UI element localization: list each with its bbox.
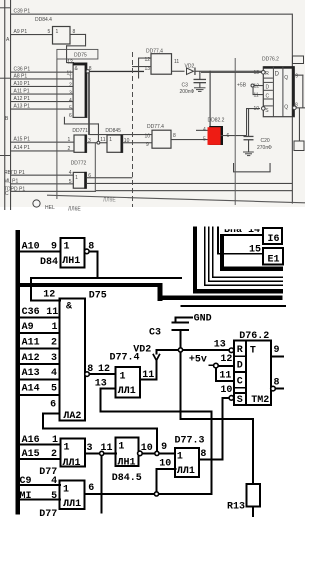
svg-text:D84.5: D84.5	[112, 473, 142, 484]
svg-text:DD845: DD845	[105, 128, 121, 134]
svg-text:3: 3	[69, 90, 72, 96]
svg-text:12: 12	[220, 354, 232, 365]
svg-text:ЛЛ1: ЛЛ1	[63, 458, 81, 469]
svg-text:11: 11	[219, 370, 231, 381]
svg-text:2: 2	[69, 83, 72, 89]
svg-text:C36: C36	[22, 307, 40, 318]
svg-text:C9: C9	[20, 476, 32, 487]
svg-text:A10: A10	[22, 242, 40, 253]
svg-text:ЛА2: ЛА2	[63, 411, 81, 422]
svg-text:C3: C3	[149, 328, 161, 339]
svg-text:A16: A16	[22, 435, 40, 446]
svg-text:A15 P1: A15 P1	[14, 136, 31, 142]
svg-text:A12 P1: A12 P1	[14, 96, 31, 102]
svg-text:11: 11	[101, 443, 113, 454]
svg-text:1: 1	[64, 443, 70, 454]
svg-text:2: 2	[68, 146, 71, 152]
svg-text:12: 12	[98, 364, 110, 375]
svg-text:DD75: DD75	[74, 52, 87, 58]
svg-text:T: T	[250, 346, 256, 357]
svg-text:VD2: VD2	[133, 345, 151, 356]
svg-text:ТDРD P1: ТDРD P1	[4, 186, 25, 192]
svg-text:Е1: Е1	[268, 254, 280, 265]
svg-text:D77.3: D77.3	[175, 435, 205, 446]
svg-text:9: 9	[295, 74, 298, 80]
svg-text:ЛН1: ЛН1	[62, 256, 80, 267]
svg-text:GND: GND	[194, 314, 212, 325]
svg-text:ЛЛ1: ЛЛ1	[177, 466, 195, 477]
svg-text:C: C	[237, 376, 243, 387]
svg-text:D76.2: D76.2	[239, 331, 269, 342]
svg-text:13: 13	[214, 339, 226, 350]
svg-text:D: D	[237, 361, 243, 372]
svg-text:6: 6	[69, 113, 72, 119]
svg-text:A11: A11	[22, 338, 40, 349]
svg-text:C39 P1: C39 P1	[14, 9, 31, 15]
svg-text:D: D	[266, 85, 270, 91]
svg-text:ЛН1: ЛН1	[118, 457, 136, 468]
svg-text:9: 9	[274, 345, 280, 356]
svg-text:D77: D77	[39, 509, 57, 520]
svg-text:11: 11	[254, 92, 259, 98]
svg-text:8: 8	[89, 66, 92, 72]
svg-text:15: 15	[249, 244, 261, 255]
svg-text:ЛЛ1: ЛЛ1	[118, 386, 136, 397]
svg-text:ЛЛ6Е: ЛЛ6Е	[68, 207, 81, 213]
svg-text:8: 8	[73, 29, 76, 35]
svg-text:1: 1	[52, 322, 58, 333]
svg-text:1: 1	[69, 75, 72, 81]
svg-text:8: 8	[200, 449, 206, 460]
svg-text:3: 3	[88, 138, 91, 144]
svg-text:11: 11	[100, 137, 105, 143]
svg-text:2: 2	[51, 338, 57, 349]
svg-text:6: 6	[88, 173, 91, 179]
svg-text:A15: A15	[22, 449, 40, 460]
svg-text:10: 10	[124, 138, 130, 144]
svg-text:A13 P1: A13 P1	[14, 104, 31, 110]
svg-text:1: 1	[56, 29, 59, 35]
svg-text:I6: I6	[268, 234, 280, 245]
svg-text:D84: D84	[40, 257, 58, 268]
svg-text:ЯВГD P1: ЯВГD P1	[4, 170, 25, 176]
svg-text:200пФ: 200пФ	[180, 89, 195, 95]
svg-text:5: 5	[51, 491, 57, 502]
svg-text:ЛЛ9Е: ЛЛ9Е	[103, 198, 116, 204]
svg-text:4: 4	[69, 98, 72, 104]
svg-text:DD76.2: DD76.2	[262, 57, 279, 63]
svg-text:Q: Q	[284, 105, 288, 111]
svg-text:A14 P1: A14 P1	[14, 145, 31, 151]
svg-text:НЕL: НЕL	[45, 205, 55, 211]
svg-text:DD771: DD771	[72, 128, 88, 134]
svg-text:270пФ: 270пФ	[257, 145, 272, 151]
svg-text:S: S	[237, 395, 243, 406]
svg-text:8: 8	[87, 364, 93, 375]
svg-text:DD77.4: DD77.4	[147, 124, 164, 130]
svg-text:4: 4	[69, 170, 72, 176]
svg-text:11: 11	[46, 307, 58, 318]
svg-text:A8 P1: A8 P1	[14, 73, 28, 79]
svg-text:6: 6	[227, 133, 230, 139]
svg-text:Q: Q	[284, 75, 288, 81]
svg-text:МL P1: МL P1	[4, 179, 18, 185]
svg-text:9: 9	[161, 442, 167, 453]
svg-text:1: 1	[52, 435, 58, 446]
svg-text:13: 13	[254, 70, 260, 76]
svg-text:5: 5	[203, 137, 206, 143]
svg-text:C3: C3	[182, 83, 189, 89]
svg-text:9: 9	[51, 242, 57, 253]
svg-text:3: 3	[87, 443, 93, 454]
svg-text:C36 P1: C36 P1	[14, 67, 31, 73]
svg-text:1: 1	[68, 137, 71, 143]
svg-text:13: 13	[95, 379, 107, 390]
svg-text:ЛЛ1: ЛЛ1	[63, 499, 81, 510]
svg-text:D75: D75	[89, 291, 107, 302]
svg-text:A12: A12	[22, 353, 40, 364]
svg-text:6: 6	[50, 399, 56, 410]
svg-text:4: 4	[51, 476, 57, 487]
svg-text:1: 1	[118, 442, 124, 453]
svg-text:12: 12	[43, 290, 55, 301]
svg-text:DD772: DD772	[71, 160, 87, 166]
svg-text:8: 8	[274, 378, 280, 389]
svg-text:A9: A9	[22, 322, 34, 333]
svg-text:DD77.4: DD77.4	[146, 49, 163, 55]
svg-text:+5В: +5В	[237, 83, 247, 89]
svg-text:1: 1	[177, 452, 183, 463]
svg-text:5: 5	[48, 29, 51, 35]
svg-text:R13: R13	[227, 502, 245, 513]
svg-text:A14: A14	[22, 384, 40, 395]
svg-text:8: 8	[88, 242, 94, 253]
svg-text:10: 10	[254, 106, 260, 112]
svg-text:8: 8	[173, 133, 176, 139]
svg-text:C: C	[266, 93, 270, 99]
svg-text:11: 11	[142, 370, 154, 381]
svg-text:5: 5	[69, 105, 72, 111]
svg-text:DD84.4: DD84.4	[35, 17, 52, 23]
svg-text:DD82.2: DD82.2	[208, 118, 225, 124]
svg-text:12: 12	[254, 83, 260, 89]
svg-text:C20: C20	[261, 138, 270, 144]
svg-text:1: 1	[120, 371, 126, 382]
svg-text:3: 3	[51, 353, 57, 364]
svg-text:12: 12	[145, 57, 151, 63]
svg-text:5: 5	[51, 384, 57, 395]
svg-text:A13: A13	[22, 368, 40, 379]
svg-text:1: 1	[63, 484, 69, 495]
svg-text:A9 P1: A9 P1	[14, 29, 28, 35]
svg-text:12: 12	[67, 60, 73, 66]
svg-text:R: R	[237, 345, 243, 356]
svg-text:4: 4	[51, 368, 57, 379]
svg-text:MI: MI	[20, 491, 32, 502]
svg-text:A10 P1: A10 P1	[14, 81, 31, 87]
svg-text:A11 P1: A11 P1	[14, 89, 30, 95]
svg-text:R: R	[265, 71, 269, 77]
svg-text:8: 8	[295, 103, 298, 109]
svg-text:11: 11	[174, 59, 179, 65]
svg-text:2: 2	[51, 449, 57, 460]
svg-text:D: D	[275, 72, 280, 78]
svg-text:5: 5	[69, 179, 72, 185]
svg-text:6: 6	[88, 483, 94, 494]
svg-text:1: 1	[64, 242, 70, 253]
svg-text:VD2: VD2	[185, 64, 195, 70]
svg-text:1: 1	[109, 137, 112, 143]
svg-text:10: 10	[159, 459, 171, 470]
svg-text:10: 10	[141, 443, 153, 454]
svg-text:&: &	[66, 302, 72, 313]
svg-text:+5v: +5v	[189, 355, 207, 366]
svg-text:9: 9	[146, 142, 149, 148]
svg-text:1: 1	[75, 175, 78, 181]
svg-text:10: 10	[145, 134, 151, 140]
svg-text:13: 13	[145, 66, 151, 72]
svg-text:TM2: TM2	[251, 395, 269, 406]
svg-text:4: 4	[203, 127, 206, 133]
svg-text:10: 10	[220, 385, 232, 396]
